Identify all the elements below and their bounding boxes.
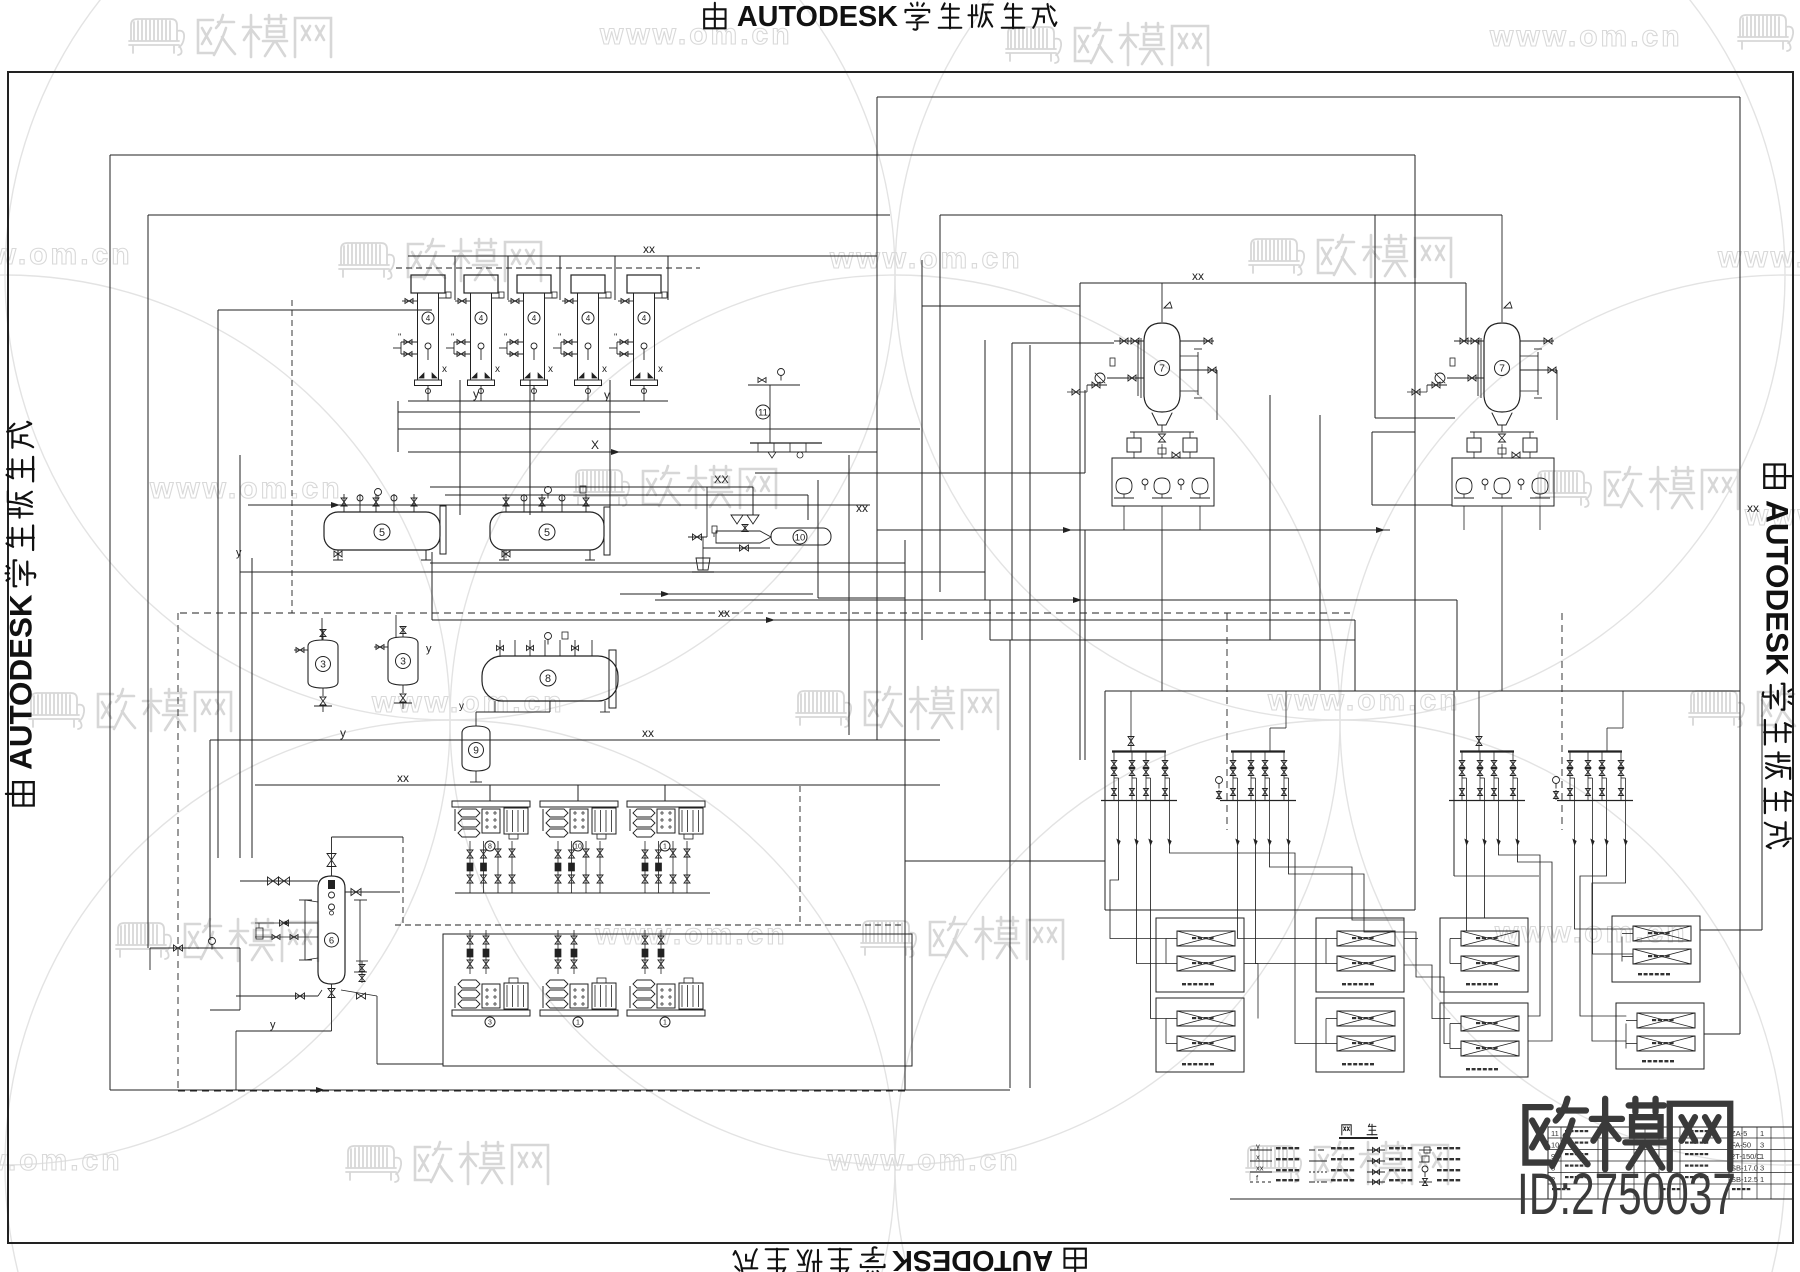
vessel V5 horizontal tank bbox=[490, 512, 604, 550]
svg-text:AUTODESK: AUTODESK bbox=[3, 594, 38, 770]
legend bottom line bbox=[1230, 1198, 1793, 1200]
svg-text:": " bbox=[451, 332, 454, 342]
svg-text:x: x bbox=[548, 364, 553, 375]
svg-text:3: 3 bbox=[400, 657, 406, 668]
column T4-5 bbox=[627, 275, 661, 293]
svg-text:11: 11 bbox=[758, 407, 768, 418]
pipe manifold area frame bbox=[1105, 909, 1415, 911]
pipe y740 bbox=[210, 739, 940, 741]
pipe bundle manifold B bbox=[1238, 848, 1327, 939]
pipe y563 bbox=[430, 562, 905, 564]
dashed risers bbox=[1226, 613, 1228, 830]
svg-text:y: y bbox=[270, 1019, 276, 1031]
column T4-2 bbox=[464, 275, 498, 293]
svg-text:": " bbox=[558, 332, 561, 342]
svg-text:4: 4 bbox=[426, 314, 431, 323]
svg-text:10: 10 bbox=[795, 532, 806, 543]
pipe y340 vessel feed bbox=[1012, 342, 1114, 344]
pump area frame bbox=[443, 934, 912, 1066]
svg-text:xx: xx bbox=[718, 606, 730, 620]
pipe x922 bbox=[921, 260, 923, 640]
svg-text:FA-50: FA-50 bbox=[1731, 1141, 1751, 1150]
pipe x1375 bbox=[1374, 215, 1376, 418]
valve manifold at x1487 bbox=[1460, 750, 1514, 752]
svg-text:www.om.cn: www.om.cn bbox=[0, 1144, 123, 1177]
filter box at 1316,918 bbox=[1316, 918, 1404, 992]
svg-text:4: 4 bbox=[642, 314, 647, 323]
svg-text:xx: xx bbox=[1192, 269, 1204, 283]
svg-text:1: 1 bbox=[1760, 1175, 1764, 1184]
pipe x1030 bbox=[1029, 345, 1031, 1088]
svg-text:AUTODESK: AUTODESK bbox=[737, 1, 898, 33]
pipe main frame bbox=[110, 154, 1415, 156]
svg-text:3: 3 bbox=[488, 1020, 492, 1027]
manifold through lines bbox=[1453, 691, 1455, 876]
pipe xx top loop bbox=[877, 96, 1740, 98]
instrument stand I11 bbox=[748, 384, 800, 386]
svg-text:XX: XX bbox=[714, 474, 729, 486]
svg-text:www.om.cn: www.om.cn bbox=[149, 472, 343, 505]
filter box at 1156,998 bbox=[1156, 998, 1244, 1072]
svg-text:11: 11 bbox=[1551, 1129, 1559, 1138]
pipe x818 loop bbox=[817, 480, 819, 598]
pipe x905 bbox=[904, 540, 906, 1090]
pipe x1270 bbox=[1269, 395, 1271, 640]
pipe interbox links bbox=[1244, 963, 1258, 965]
svg-text:": " bbox=[614, 332, 617, 342]
svg-text:5: 5 bbox=[379, 527, 385, 539]
pipe y510 bbox=[877, 529, 1390, 531]
svg-text:xx: xx bbox=[397, 771, 409, 785]
svg-text:": " bbox=[398, 332, 401, 342]
pipe y600 bbox=[655, 599, 1457, 601]
pipe dashed y613 bbox=[180, 612, 1350, 614]
svg-text:7: 7 bbox=[1499, 364, 1505, 375]
svg-text:5: 5 bbox=[544, 527, 550, 539]
pipe xx right edge bbox=[1761, 696, 1763, 930]
pipe bottom arrow bbox=[316, 1087, 325, 1093]
vessel V7 at x1502 bbox=[1484, 323, 1520, 412]
legend block bbox=[1342, 1125, 1351, 1135]
filter box at 1612,916 bbox=[1612, 916, 1700, 982]
svg-text:AUTODESK: AUTODESK bbox=[1760, 500, 1795, 676]
svg-text:xx: xx bbox=[1256, 1164, 1264, 1173]
filter box at 1316,998 bbox=[1316, 998, 1404, 1072]
svg-text:1: 1 bbox=[663, 844, 667, 851]
svg-text:xx: xx bbox=[643, 242, 655, 256]
svg-text:www.om.cn: www.om.cn bbox=[1717, 241, 1800, 274]
svg-text:x: x bbox=[602, 364, 607, 375]
pipe y572 bbox=[240, 571, 985, 573]
drum V3 bbox=[388, 637, 418, 685]
svg-text:ID:2750037: ID:2750037 bbox=[1517, 1161, 1736, 1226]
svg-text:4: 4 bbox=[586, 314, 591, 323]
filter box at 1156,918 bbox=[1156, 918, 1244, 992]
pipe right feeds bbox=[1700, 929, 1762, 931]
svg-text:y: y bbox=[1256, 1142, 1260, 1151]
svg-text:www.om.cn: www.om.cn bbox=[829, 242, 1023, 275]
pipe y452 X bbox=[408, 451, 877, 453]
right autodesk text (rotated 90) bbox=[1760, 465, 1795, 849]
pipe y505 bbox=[248, 504, 870, 506]
svg-text:3: 3 bbox=[1760, 1141, 1764, 1150]
pipe x849 bbox=[848, 455, 850, 735]
pipe x1320 bbox=[1319, 415, 1321, 690]
svg-text:8: 8 bbox=[488, 844, 492, 851]
svg-text:y: y bbox=[473, 387, 479, 401]
svg-text:www.om.cn: www.om.cn bbox=[371, 686, 565, 719]
pipe header y243 bbox=[408, 255, 877, 257]
vessel V6 tall column bbox=[318, 876, 345, 984]
svg-text:x: x bbox=[658, 364, 663, 375]
pump P10 unit bbox=[540, 801, 618, 839]
drum downpipes bbox=[321, 618, 323, 640]
svg-text:1: 1 bbox=[576, 1020, 580, 1027]
pipe y412 bbox=[398, 411, 640, 413]
svg-text:www.om.cn: www.om.cn bbox=[827, 1144, 1021, 1177]
valve manifold at x1139 bbox=[1112, 750, 1166, 752]
column T4-1 bbox=[411, 275, 445, 293]
svg-text:y: y bbox=[459, 701, 464, 712]
pipe y429 bbox=[398, 428, 920, 430]
svg-text:x: x bbox=[1256, 1153, 1260, 1162]
pipe dashed vertical x292 bbox=[291, 300, 293, 613]
svg-text:1: 1 bbox=[663, 1020, 667, 1027]
svg-text:x: x bbox=[442, 364, 447, 375]
column T4-3 bbox=[517, 275, 551, 293]
svg-text:2T-150/C: 2T-150/C bbox=[1731, 1152, 1762, 1161]
svg-text:www.om.cn: www.om.cn bbox=[1267, 684, 1461, 717]
utility station left bbox=[150, 947, 240, 949]
svg-text:4: 4 bbox=[479, 314, 484, 323]
pipe x1010 bbox=[1009, 640, 1011, 1088]
pipe y283 xx bbox=[1080, 282, 1466, 284]
svg-text:www.om.cn: www.om.cn bbox=[0, 238, 133, 271]
svg-text:3: 3 bbox=[1760, 1164, 1764, 1173]
svg-text:9: 9 bbox=[473, 746, 479, 757]
svg-text:3: 3 bbox=[320, 660, 326, 671]
pump P1 unit bbox=[627, 1010, 705, 1016]
big logo OUMOWANG bbox=[1525, 1099, 1587, 1166]
filter box at 1616,1003 bbox=[1616, 1003, 1704, 1069]
vessel V7 at x1162 bbox=[1144, 323, 1180, 412]
pipe dashed over columns bbox=[396, 267, 700, 269]
svg-text:x: x bbox=[495, 364, 500, 375]
pipe bundle manifold D bbox=[1575, 848, 1634, 929]
pipe bundle manifold A bbox=[1110, 848, 1166, 939]
V7 discharge drops bbox=[1161, 530, 1163, 691]
filter box at 1440,918 bbox=[1440, 918, 1528, 992]
drum V3 bbox=[308, 640, 338, 688]
svg-text:1: 1 bbox=[1760, 1152, 1764, 1161]
svg-text:www.om.cn: www.om.cn bbox=[1489, 20, 1683, 53]
svg-text:": " bbox=[504, 332, 507, 342]
bottom autodesk text (rotated 180) bbox=[734, 1244, 1086, 1272]
pump P3 unit bbox=[452, 1010, 530, 1016]
svg-text:X: X bbox=[591, 438, 599, 452]
svg-text:y: y bbox=[604, 388, 610, 402]
pipe frame 2 bbox=[148, 214, 890, 216]
pipe bundle manifold C bbox=[1461, 848, 1467, 931]
vessel V5a end plate bbox=[440, 506, 446, 554]
pipe dashed y925 bbox=[395, 924, 905, 926]
svg-text:10: 10 bbox=[574, 844, 582, 851]
pipe dashed rect x355 bbox=[177, 613, 179, 1091]
svg-text:xx: xx bbox=[642, 726, 654, 740]
drum V9 bbox=[462, 726, 490, 771]
svg-text:ZA-5: ZA-5 bbox=[1731, 1129, 1747, 1138]
pipe column downcomers bbox=[459, 380, 461, 515]
pipe y620 xx bbox=[432, 619, 1355, 621]
svg-text:AUTODESK: AUTODESK bbox=[892, 1244, 1053, 1272]
svg-text:4: 4 bbox=[532, 314, 537, 323]
pipe y594 arrow bbox=[620, 593, 813, 595]
pump suction/discharge valves bottom row bbox=[469, 930, 471, 974]
vessel V5 horizontal tank bbox=[324, 512, 440, 550]
parts table bbox=[1548, 1127, 1793, 1199]
svg-text:7: 7 bbox=[1159, 364, 1165, 375]
pipe pump feed drops bbox=[489, 785, 491, 801]
vessel V5b end plate bbox=[604, 507, 610, 555]
pump suction/discharge valves top row bbox=[469, 841, 471, 893]
top autodesk text bbox=[704, 1, 1056, 33]
valve manifold at x1595 bbox=[1568, 750, 1622, 752]
column T4-4 bbox=[571, 275, 605, 293]
svg-text:xx: xx bbox=[1747, 501, 1759, 515]
svg-text:6: 6 bbox=[329, 935, 334, 946]
svg-text:1: 1 bbox=[1760, 1129, 1764, 1138]
pipe y785 xx bbox=[255, 784, 940, 786]
pipe y401 header bbox=[408, 400, 668, 402]
svg-text:y: y bbox=[426, 643, 432, 655]
pipe y640 bbox=[990, 639, 1355, 641]
pipe frame 3 bbox=[218, 309, 432, 311]
svg-text:y: y bbox=[236, 547, 242, 559]
ejector E10 assembly bbox=[430, 486, 753, 488]
pump P1 unit bbox=[627, 801, 705, 839]
aux frame near V7b bbox=[1371, 432, 1373, 505]
pipe y540 right bbox=[1084, 530, 1086, 760]
pump P8 unit bbox=[452, 801, 530, 839]
pipe y691 bbox=[1105, 690, 1740, 692]
valve manifold at x1258 bbox=[1231, 750, 1285, 752]
pump P1 unit bbox=[540, 1010, 618, 1016]
svg-text:8: 8 bbox=[545, 673, 551, 685]
vessel V8 horizontal bbox=[482, 656, 618, 701]
left autodesk text (rotated -90) bbox=[3, 422, 38, 806]
svg-text:xx: xx bbox=[856, 501, 868, 515]
filter box at 1440,1003 bbox=[1440, 1003, 1528, 1077]
svg-text:y: y bbox=[340, 726, 346, 740]
V5 top nozzles and valves bbox=[343, 494, 345, 512]
